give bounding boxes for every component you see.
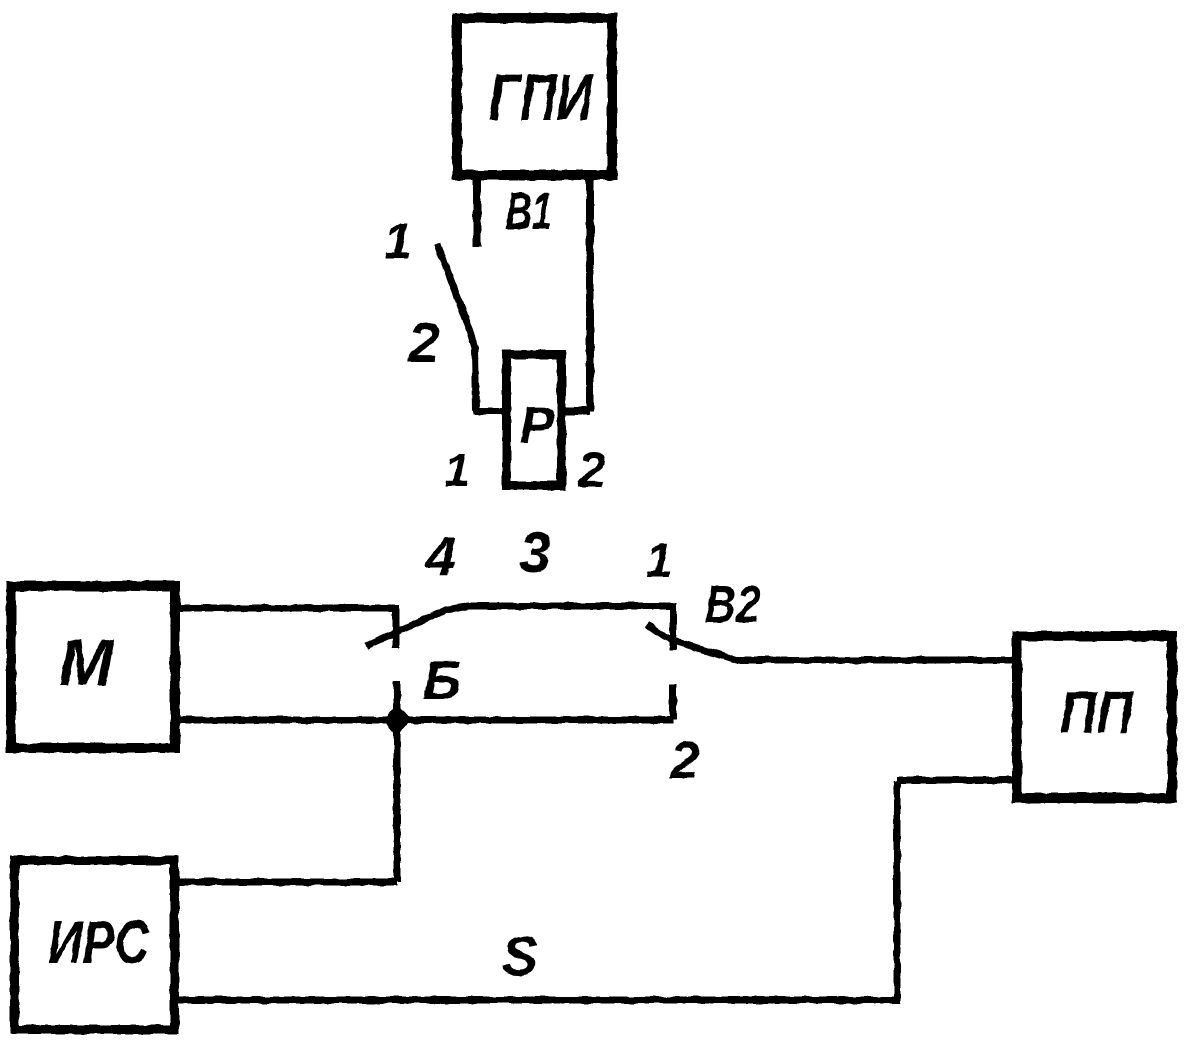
switch В2 right blade: [647, 624, 739, 661]
svg-text:1: 1: [646, 535, 673, 588]
wire node Б down: [394, 681, 401, 882]
svg-text:2: 2: [670, 732, 700, 790]
junction node Б: [383, 704, 411, 736]
block ГПИ: [457, 18, 612, 175]
В2 contact 4 tick: [393, 608, 400, 648]
block ИРС: [15, 861, 175, 1030]
В2 contact 1 tick: [670, 603, 677, 650]
svg-text:2: 2: [577, 442, 606, 498]
wire ГПИ pin to switch В1 contact 1: [473, 180, 481, 247]
wire S segment to ПП: [897, 777, 1017, 784]
В2 contact 2 tick: [670, 684, 677, 720]
svg-text:ИРС: ИРС: [48, 909, 150, 976]
svg-text:В1: В1: [506, 183, 552, 241]
svg-text:ПП: ПП: [1060, 680, 1134, 746]
svg-text:1: 1: [444, 444, 470, 496]
svg-text:S: S: [502, 925, 539, 987]
svg-text:2: 2: [407, 311, 440, 375]
switch В1 blade: [437, 244, 476, 411]
svg-text:ГПИ: ГПИ: [489, 60, 594, 134]
svg-text:1: 1: [384, 213, 412, 269]
wire S segment ИРС lower pin right: [179, 997, 897, 1004]
wire ИРС upper pin to node Б: [179, 879, 397, 886]
svg-text:В2: В2: [705, 576, 760, 634]
wire М lower pin to В2 contact 2: [180, 717, 673, 724]
wire S segment vertical up: [894, 780, 901, 1004]
block ПП: [1017, 636, 1172, 798]
svg-text:3: 3: [519, 521, 551, 585]
wire В1 blade to relay Р pin 1: [473, 408, 503, 415]
svg-text:4: 4: [425, 525, 457, 587]
svg-text:Б: Б: [423, 649, 462, 711]
svg-text:М: М: [59, 625, 116, 699]
wire М upper pin to В2 contact 4: [180, 605, 399, 612]
block М: [11, 586, 175, 748]
wire В2 blade to ПП: [737, 657, 1017, 664]
relay Р box: [507, 355, 562, 486]
wire В2 contact 3 run: [466, 603, 673, 610]
wire ГПИ pin to relay Р pin 2: [564, 180, 590, 411]
switch В2 left blade: [366, 606, 469, 646]
svg-text:Р: Р: [520, 397, 555, 455]
